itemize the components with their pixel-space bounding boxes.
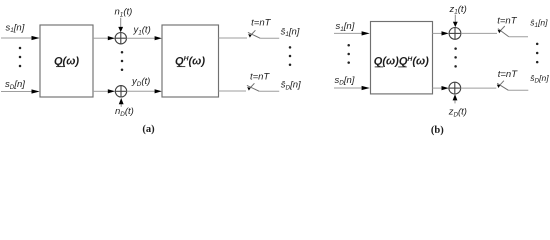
arrowhead input D b (362, 86, 370, 90)
label z1(t) (449, 4, 467, 16)
block Q(w)QH(w) b (371, 22, 433, 94)
arrowhead into adder1 a (108, 36, 115, 40)
sampler arrowhead chD a (247, 87, 250, 91)
arrowhead into box2 chD (155, 89, 162, 93)
label QH(w) (175, 55, 205, 67)
wire input 1 a (1, 37, 32, 39)
label t=nT ch1 a (251, 18, 271, 29)
arrowhead noise nD (119, 98, 124, 104)
svg-text:ŝD[n]: ŝD[n] (281, 80, 301, 92)
sampler switch ch1 a (248, 30, 260, 38)
svg-text:Q(ω)QH(ω): Q(ω)QH(ω) (374, 56, 429, 68)
label Q(w) (54, 55, 79, 67)
svg-text:t=nT: t=nT (498, 69, 518, 80)
sampler arrowhead chD b (497, 85, 500, 89)
wire sampled out ch1 b (509, 36, 528, 38)
arrowhead input 1 a (32, 36, 40, 40)
wire box to adderD b (433, 87, 442, 89)
input dots a (19, 47, 22, 68)
svg-text:ŝD[n]: ŝD[n] (530, 73, 549, 85)
svg-text:t=nT: t=nT (251, 18, 271, 29)
svg-text:n1(t): n1(t) (115, 7, 133, 19)
summer S1 a (115, 33, 126, 44)
label y1(t) (133, 25, 151, 37)
summer S1 b (449, 28, 461, 40)
label s^1[n] out b (530, 18, 548, 30)
wire box to adder1 b (433, 32, 442, 34)
label yD(t) (131, 76, 150, 88)
svg-text:QH(ω): QH(ω) (175, 55, 205, 67)
svg-text:t=nT: t=nT (250, 71, 270, 82)
middle dots a (121, 51, 124, 71)
svg-text:ŝ1[n]: ŝ1[n] (530, 18, 548, 30)
svg-text:yD(t): yD(t) (131, 76, 150, 88)
label s^D[n] out b (530, 73, 549, 85)
caption (b) (431, 125, 444, 136)
wire noise n1 down (120, 18, 122, 28)
label n1(t) (115, 7, 133, 19)
arrowhead into adderD a (108, 89, 115, 93)
svg-text:zD(t): zD(t) (448, 107, 467, 119)
svg-text:(b): (b) (431, 125, 444, 136)
arrowhead noise n1 (118, 27, 123, 32)
label t=nT chD b (498, 69, 518, 80)
arrowhead into box2 ch1 (155, 36, 162, 40)
label s1[n] input a (6, 22, 25, 34)
block Q(w) a (40, 25, 93, 97)
label s^1[n] out a (281, 26, 300, 38)
wire adder1 to box2 a (127, 37, 156, 39)
svg-text:sD[n]: sD[n] (335, 75, 355, 87)
svg-text:s1[n]: s1[n] (6, 22, 25, 34)
output dots b (536, 43, 539, 64)
summer SD a (115, 86, 126, 97)
output dots a (289, 46, 292, 66)
wire box2 out chD a (219, 90, 247, 92)
wire input D b (334, 87, 362, 89)
wire adder1 to switch b (461, 32, 497, 34)
svg-text:ŝ1[n]: ŝ1[n] (281, 26, 300, 38)
svg-text:sD[n]: sD[n] (5, 79, 25, 91)
wire noise nD up (120, 104, 122, 107)
middle dots b (454, 47, 457, 67)
svg-text:t=nT: t=nT (497, 15, 517, 26)
wire adderD to box2 a (127, 90, 156, 92)
svg-text:z1(t): z1(t) (449, 4, 467, 16)
label s^D[n] out a (281, 80, 301, 92)
label sD[n] input a (5, 79, 25, 91)
label s1[n] input b (336, 21, 355, 33)
arrowhead input D a (32, 89, 40, 93)
wire input 1 b (334, 32, 362, 34)
arrowhead into adder1 b (442, 31, 449, 35)
wire box2 out ch1 a (219, 37, 248, 39)
wire input D a (1, 91, 32, 93)
wire sampled out chD a (259, 90, 279, 92)
arrowhead noise z1 (453, 22, 458, 27)
arrowhead noise zD (453, 94, 458, 100)
label t=nT ch1 b (497, 15, 517, 26)
wire box1 to adderD a (93, 90, 109, 92)
sampler arrowhead ch1 a (248, 34, 251, 38)
svg-text:(a): (a) (142, 124, 155, 135)
svg-text:s1[n]: s1[n] (336, 21, 355, 33)
label zD(t) (448, 107, 467, 119)
wire noise zD up (454, 100, 456, 103)
label nD(t) (115, 106, 134, 118)
sampler switch chD a (247, 83, 259, 91)
caption (a) (142, 124, 155, 135)
block QH(w) a (162, 25, 219, 97)
input dots b (347, 44, 350, 64)
sampler arrowhead ch1 b (498, 30, 501, 34)
wire box1 to adder1 a (93, 37, 109, 39)
label t=nT chD a (250, 71, 270, 82)
wire adderD to switch b (461, 87, 497, 89)
arrowhead input 1 b (362, 31, 370, 35)
label sD[n] input b (335, 75, 355, 87)
svg-text:Q(ω): Q(ω) (54, 55, 79, 67)
summer SD b (449, 82, 461, 94)
wire noise z1 down (454, 15, 456, 23)
sampler switch ch1 b (498, 26, 509, 37)
wire sampled out chD b (508, 89, 528, 91)
wire sampled out ch1 a (260, 37, 279, 39)
arrowhead into adderD b (442, 86, 449, 90)
sampler switch chD b (497, 81, 508, 91)
svg-text:y1(t): y1(t) (133, 25, 151, 37)
svg-text:nD(t): nD(t) (115, 106, 134, 118)
label Q(w)QH(w) (374, 56, 429, 68)
